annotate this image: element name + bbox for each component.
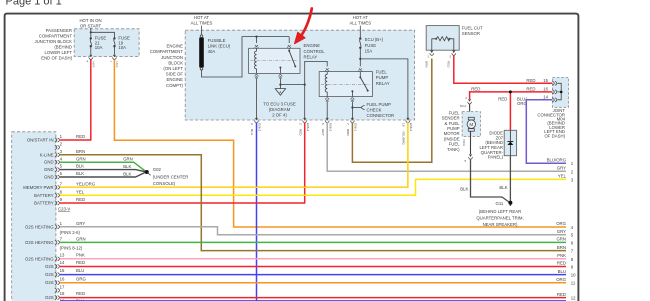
svg-text:CONSOLE): CONSOLE) xyxy=(153,181,176,186)
junction block dashed box xyxy=(185,30,414,120)
svg-text:YEL: YEL xyxy=(76,189,85,194)
svg-text:E06-1: E06-1 xyxy=(354,123,358,132)
sensor internal wiring xyxy=(432,39,454,50)
svg-text:ORG: ORG xyxy=(76,276,86,281)
svg-text:17: 17 xyxy=(60,285,65,290)
svg-text:BLU: BLU xyxy=(250,129,254,135)
svg-text:BLU: BLU xyxy=(76,268,84,273)
svg-text:E06-2: E06-2 xyxy=(409,123,413,132)
svg-text:K-LINE: K-LINE xyxy=(40,152,54,157)
svg-text:+: + xyxy=(110,59,112,63)
wire RED from engine control relay to ECU battery pin 9 xyxy=(60,123,305,204)
svg-text:GRN: GRN xyxy=(123,157,133,162)
pin 4 GND GRN xyxy=(55,160,60,164)
svg-text:C23-V: C23-V xyxy=(58,207,70,212)
svg-text:18: 18 xyxy=(402,123,406,127)
fuel pump relay switch xyxy=(359,72,361,77)
svg-text:PNK: PNK xyxy=(76,252,85,257)
svg-text:RED: RED xyxy=(557,261,566,266)
svg-text:15: 15 xyxy=(543,78,548,83)
wire GRY O2S to right edge pin 5 xyxy=(60,227,566,235)
red annotation arrow xyxy=(302,9,312,36)
svg-text:16: 16 xyxy=(543,87,548,92)
svg-text:10A: 10A xyxy=(95,45,103,50)
wire fusible link to relay feed xyxy=(202,37,290,77)
node relay feed junction xyxy=(255,36,257,38)
svg-text:BLK: BLK xyxy=(499,185,507,190)
svg-text:PUMP: PUMP xyxy=(376,75,389,80)
pin 1 ON/START IN xyxy=(55,138,60,142)
svg-text:JUNCTION: JUNCTION xyxy=(161,55,183,60)
svg-text:BLK: BLK xyxy=(76,164,84,169)
wire motor bottom to pin 5 xyxy=(470,131,472,154)
svg-text:GND: GND xyxy=(44,175,54,180)
wire BLK motor to ground G11 xyxy=(471,159,511,203)
wire into motor box xyxy=(469,104,471,118)
svg-text:TO ECU 3 FUSE: TO ECU 3 FUSE xyxy=(263,101,296,106)
svg-text:E06-2: E06-2 xyxy=(329,123,333,132)
svg-text:O2S: O2S xyxy=(45,264,54,269)
svg-text:BATTERY: BATTERY xyxy=(34,193,54,198)
svg-text:FUEL CUT: FUEL CUT xyxy=(462,26,483,31)
svg-text:CONNECTOR: CONNECTOR xyxy=(367,113,395,118)
wire ECU fuse to fuel pump relay switch and YEL/ORG exit xyxy=(360,48,408,118)
svg-text:Page 1 of 1: Page 1 of 1 xyxy=(6,0,62,8)
svg-text:BLK: BLK xyxy=(123,164,131,169)
wire YEL from ECU pin 8 to right edge pin 3 xyxy=(60,179,566,195)
svg-text:HOT AT: HOT AT xyxy=(353,15,368,20)
joint connector bus xyxy=(558,83,562,100)
fuse 19 xyxy=(113,37,115,39)
node fuse feed junction xyxy=(90,31,92,33)
motor M2 symbol xyxy=(468,117,474,120)
svg-text:YEL/ORG: YEL/ORG xyxy=(402,131,406,145)
wire GRY from fuel pump relay to right edge pin 2 xyxy=(327,123,566,172)
relay dash-dot line xyxy=(250,59,298,61)
svg-text:E06-2: E06-2 xyxy=(258,123,262,132)
sensor pin terminals xyxy=(430,51,434,56)
svg-text:RED: RED xyxy=(526,87,535,92)
svg-text:COMPARTMENT: COMPARTMENT xyxy=(39,34,73,39)
pin 3 K-LINE xyxy=(55,153,60,157)
wire BLU from engine control relay down to bottom edge xyxy=(256,123,258,301)
pin 17 xyxy=(55,288,60,292)
svg-text:11: 11 xyxy=(571,281,576,286)
node A xyxy=(279,84,281,86)
svg-text:BRN: BRN xyxy=(425,61,429,68)
wire PNK to right edge pin 8 xyxy=(60,258,566,260)
motor dashed box xyxy=(462,112,480,137)
svg-text:RED: RED xyxy=(557,292,566,297)
diode symbol xyxy=(508,141,514,143)
wire switch junction to RED exit and fuel pump relay coil xyxy=(280,61,327,118)
pin 16 O2S ORG xyxy=(55,281,60,285)
svg-text:BLK: BLK xyxy=(76,171,84,176)
svg-text:2: 2 xyxy=(298,123,302,125)
svg-text:GRN: GRN xyxy=(556,237,566,242)
svg-text:ENGINE: ENGINE xyxy=(167,44,184,49)
svg-text:ECU (B+): ECU (B+) xyxy=(365,37,384,42)
svg-text:RELAY: RELAY xyxy=(376,81,390,86)
label hot in on or start xyxy=(79,18,101,29)
op: engine control relay box U1 xyxy=(249,48,300,73)
ground G11 xyxy=(508,201,512,205)
svg-text:BRN: BRN xyxy=(76,149,85,154)
svg-text:ALL TIMES: ALL TIMES xyxy=(349,21,371,26)
svg-text:GRN: GRN xyxy=(76,156,86,161)
svg-text:14: 14 xyxy=(543,94,548,99)
exit terminal fuse21 xyxy=(89,55,93,60)
svg-text:(PINS 2-6): (PINS 2-6) xyxy=(60,230,81,235)
svg-text:CHECK: CHECK xyxy=(367,107,382,112)
svg-text:ENGINE: ENGINE xyxy=(167,77,184,82)
wire GRN to ground G02 xyxy=(60,162,146,172)
exit terminal fuse19 xyxy=(112,55,116,60)
svg-text:GND: GND xyxy=(44,167,54,172)
fuse 21 xyxy=(90,37,92,39)
pin 2 xyxy=(55,145,60,149)
svg-text:ORG: ORG xyxy=(556,221,566,226)
relay terminals top (fuel pump relay) xyxy=(326,68,329,72)
svg-text:5: 5 xyxy=(465,159,467,163)
svg-text:JUNCTION BLOCK: JUNCTION BLOCK xyxy=(35,39,73,44)
svg-text:RED: RED xyxy=(76,134,85,139)
svg-text:BLOCK: BLOCK xyxy=(168,60,183,65)
svg-text:(ON LEFT: (ON LEFT xyxy=(163,66,183,71)
relay switch xyxy=(288,48,290,50)
svg-text:RED: RED xyxy=(498,97,507,102)
svg-text:(BEHIND LEFT REAR: (BEHIND LEFT REAR xyxy=(479,209,521,214)
svg-text:OR START: OR START xyxy=(80,23,102,28)
svg-text:GRN: GRN xyxy=(76,237,86,242)
svg-text:10: 10 xyxy=(571,273,576,278)
svg-text:(DIAGRAM: (DIAGRAM xyxy=(269,107,291,112)
svg-text:G11: G11 xyxy=(496,201,504,206)
svg-text:RED: RED xyxy=(76,197,85,202)
wire YEL/ORG from junction block to ECU pin 7 xyxy=(60,123,408,188)
svg-text:16: 16 xyxy=(60,276,65,281)
svg-text:YEL/ORG: YEL/ORG xyxy=(76,181,96,186)
pin 1 O2S HEATING GRY xyxy=(55,225,60,229)
svg-text:HOT IN ON: HOT IN ON xyxy=(79,18,101,23)
svg-text:O2S: O2S xyxy=(45,272,54,277)
svg-text:PNK: PNK xyxy=(557,253,566,258)
wire BLU O2S to right edge pin 10 xyxy=(60,274,566,276)
wire fuse21 to exit xyxy=(90,46,92,54)
wire BLU/ORG joint connector pin 14 to right edge pin 1 xyxy=(526,100,566,163)
svg-text:BLK: BLK xyxy=(460,186,468,191)
svg-text:HOT AT: HOT AT xyxy=(194,15,209,20)
wire relay coil bottom to BLU exit xyxy=(256,78,258,118)
svg-text:MEMORY PWR: MEMORY PWR xyxy=(23,185,53,190)
svg-text:BLU: BLU xyxy=(558,269,566,274)
wire RED O2S to right edge pin 9 xyxy=(60,266,566,268)
pin 5 GND BLK xyxy=(55,168,60,172)
svg-text:NCA: NCA xyxy=(460,104,467,108)
svg-text:G02: G02 xyxy=(153,167,162,172)
svg-text:(BEHIND: (BEHIND xyxy=(54,45,72,50)
svg-text:15: 15 xyxy=(60,268,65,273)
svg-text:RED: RED xyxy=(471,86,480,91)
svg-text:15A: 15A xyxy=(365,48,373,53)
svg-text:FUSIBLE: FUSIBLE xyxy=(208,38,226,43)
wire BLK diode to ground G11 xyxy=(509,156,511,206)
pin 7 O2S HEATING GRN xyxy=(55,240,60,244)
wire feed to ECU fuse xyxy=(359,26,361,38)
svg-text:(UNDER CENTER: (UNDER CENTER xyxy=(153,175,189,180)
wire BRN K-LINE to right edge pin 7 xyxy=(60,155,566,251)
svg-text:I-8-F: I-8-F xyxy=(91,61,95,68)
fuel pump relay dash-dot xyxy=(321,83,371,85)
svg-text:40A: 40A xyxy=(208,49,216,54)
joint connector pins xyxy=(552,81,557,85)
label engine compartment junction block xyxy=(150,44,184,88)
svg-text:GND: GND xyxy=(44,160,54,165)
svg-text:13: 13 xyxy=(60,252,65,257)
wire relay switch bottom to junction xyxy=(279,78,281,88)
fuel pump relay terminals bottom xyxy=(326,98,329,102)
pin 13 O2S HEATING PNK xyxy=(55,257,60,261)
svg-text:9: 9 xyxy=(250,123,254,125)
wire coil bottom to GRY exit xyxy=(326,101,328,118)
ECU connector dashed box xyxy=(12,132,56,301)
label fuel cut sensor xyxy=(462,26,483,37)
node fuse junction xyxy=(359,58,361,60)
relay coil xyxy=(254,48,256,73)
labels RED near joint connector xyxy=(471,78,548,106)
svg-text:M: M xyxy=(469,122,473,127)
svg-text:LINK (ECU): LINK (ECU) xyxy=(208,44,231,49)
wire BLU O2S pin19 partial xyxy=(60,300,566,301)
svg-text:NCA: NCA xyxy=(462,140,466,147)
svg-text:O2S HEATING: O2S HEATING xyxy=(25,240,54,245)
svg-text:E06-2: E06-2 xyxy=(306,123,310,132)
ground G02 xyxy=(145,170,149,174)
relay terminals bottom xyxy=(255,75,258,79)
svg-text:RED: RED xyxy=(526,78,535,83)
svg-text:RED: RED xyxy=(76,291,85,296)
svg-text:BRN: BRN xyxy=(557,245,566,250)
junction block dashed box xyxy=(74,29,139,57)
svg-text:a: a xyxy=(87,59,89,63)
svg-text:QUARTERPANEL TRIM,: QUARTERPANEL TRIM, xyxy=(476,216,523,221)
svg-text:O2S: O2S xyxy=(45,280,54,285)
svg-text:RELAY: RELAY xyxy=(304,54,318,59)
svg-text:TANK): TANK) xyxy=(447,147,460,152)
svg-text:3: 3 xyxy=(449,55,451,59)
wire RED O2S pin18 to right edge pin 12 xyxy=(60,297,566,299)
svg-text:18: 18 xyxy=(60,291,65,296)
wire RED joint connector pin 16 to motor and diode xyxy=(470,92,553,130)
svg-text:GRY: GRY xyxy=(557,166,566,171)
svg-text:GRY: GRY xyxy=(321,129,325,136)
pin 18 O2S RED xyxy=(55,296,60,300)
fuel pump relay box xyxy=(319,72,372,97)
svg-text:7: 7 xyxy=(346,123,350,125)
svg-text:BLK: BLK xyxy=(123,171,131,176)
pin 15 O2S BLU xyxy=(55,273,60,277)
node diode tap xyxy=(509,90,512,93)
svg-text:2 OF 4): 2 OF 4) xyxy=(272,112,287,117)
svg-text:NEAR SPEAKER): NEAR SPEAKER) xyxy=(483,222,518,227)
sensor resistor zigzag xyxy=(436,37,449,41)
svg-text:4: 4 xyxy=(465,96,467,100)
svg-text:GRY: GRY xyxy=(76,221,85,226)
svg-text:LOWER LEFT: LOWER LEFT xyxy=(45,50,73,55)
wire RED fuel cut sensor to joint connector pin 15 xyxy=(454,55,553,83)
svg-text:I-8-F: I-8-F xyxy=(115,61,119,68)
svg-text:6: 6 xyxy=(321,123,325,125)
svg-text:SIDE OF: SIDE OF xyxy=(166,72,184,77)
svg-text:FUEL PUMP: FUEL PUMP xyxy=(367,102,392,107)
svg-text:BLU/ORG: BLU/ORG xyxy=(547,157,567,162)
svg-text:SENSOR: SENSOR xyxy=(462,31,480,36)
svg-text:(PINS 8-12): (PINS 8-12) xyxy=(60,246,83,251)
svg-text:10A: 10A xyxy=(118,45,126,50)
svg-text:14: 14 xyxy=(60,260,65,265)
fusible link (ECU) 40A xyxy=(200,35,203,38)
svg-text:O2S HEATING: O2S HEATING xyxy=(25,224,54,229)
wire RED fuse21 down to ECU pin 1 xyxy=(60,60,91,141)
label passenger compartment junction block xyxy=(35,28,73,61)
svg-text:12: 12 xyxy=(571,296,576,301)
svg-text:PASSENGER: PASSENGER xyxy=(46,28,72,33)
wire feed to fusible link xyxy=(201,26,203,35)
motor pin 4 terminal xyxy=(468,99,472,104)
pin 7 MEMORY PWR xyxy=(55,185,60,189)
svg-text:ORG: ORG xyxy=(556,277,566,282)
svg-text:RED: RED xyxy=(447,61,451,68)
wire BLK pin6 to ground G02 xyxy=(60,172,146,177)
svg-text:CONTROL: CONTROL xyxy=(304,49,326,54)
svg-text:ENGINE: ENGINE xyxy=(304,43,321,48)
svg-text:O2S: O2S xyxy=(45,295,54,300)
svg-text:RED: RED xyxy=(76,260,85,265)
wire stubs into engine control relay xyxy=(257,37,290,43)
label hot at all times (right) xyxy=(349,15,371,26)
fuel pump check connector tap xyxy=(351,106,353,108)
label engine control relay xyxy=(304,43,326,59)
wire hot feed into fuse box xyxy=(91,28,115,38)
wire fuse19 to exit xyxy=(113,46,115,54)
fuse ECU (B+) 15A xyxy=(359,37,361,39)
svg-text:FUEL: FUEL xyxy=(376,70,388,75)
svg-text:1: 1 xyxy=(427,55,429,59)
pin 9 BATTERY xyxy=(55,201,60,205)
svg-text:COMPARTMENT: COMPARTMENT xyxy=(150,49,184,54)
svg-text:OF DASH): OF DASH) xyxy=(544,133,565,138)
label diode Z07 xyxy=(479,131,503,160)
svg-text:ON/START IN: ON/START IN xyxy=(27,138,54,143)
wire ORG fuse19 down right and down to right edge pin 4 xyxy=(114,60,566,228)
pin 14 O2S RED xyxy=(55,264,60,268)
label hot at all times (left) xyxy=(191,15,213,26)
exits at bottom of junction block xyxy=(254,118,258,123)
svg-text:RED: RED xyxy=(298,129,302,136)
svg-text:BRN: BRN xyxy=(346,129,350,136)
wire BRN from fuel pump relay to fuel cut sensor pin 1 xyxy=(352,59,431,163)
svg-text:BATTERY: BATTERY xyxy=(34,201,54,206)
wire GRN O2S to right edge pin 6 xyxy=(60,241,566,243)
wire switch bottom to BRN exit xyxy=(351,101,353,118)
svg-text:FUSE: FUSE xyxy=(365,43,377,48)
pin 6 GND BLK xyxy=(55,175,60,179)
fuel pump relay coil xyxy=(325,72,327,97)
label fuel sender xyxy=(442,110,461,151)
svg-text:PANEL): PANEL) xyxy=(488,155,504,160)
pin 8 BATTERY xyxy=(55,193,60,197)
label joint connector M04 xyxy=(537,108,565,138)
svg-text:GRY: GRY xyxy=(557,229,566,234)
svg-text:YEL: YEL xyxy=(558,174,567,179)
label fuel pump relay xyxy=(376,70,390,86)
wire BLK pin5 to ground G02 xyxy=(60,170,146,172)
svg-text:ALL TIMES: ALL TIMES xyxy=(191,21,213,26)
svg-text:O2S HEATING: O2S HEATING xyxy=(25,256,54,261)
relay terminals top xyxy=(255,45,258,49)
wire ORG O2S to right edge pin 11 xyxy=(60,282,566,284)
off-page triangle to ECU 3 fuse xyxy=(275,89,285,96)
svg-text:END OF DASH): END OF DASH) xyxy=(41,56,72,61)
svg-text:COMPT): COMPT) xyxy=(166,83,184,88)
exit labels xyxy=(250,123,413,145)
